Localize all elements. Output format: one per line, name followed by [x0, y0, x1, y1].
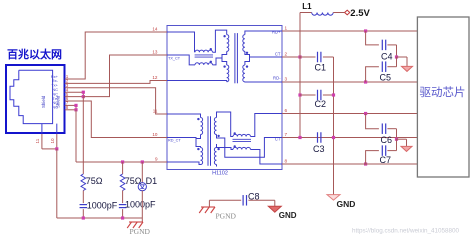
transformer T1 secondary winding (bottom cell) [214, 118, 219, 167]
svg-text:14: 14 [152, 27, 158, 32]
svg-text:https∶//blog.csdn.net/weixin_4: https∶//blog.csdn.net/weixin_41058800 [352, 228, 460, 235]
resistor R2 75ohm [120, 174, 125, 191]
wire T1 pin7 row to chip [282, 137, 417, 139]
svg-text:1: 1 [285, 26, 288, 31]
junction pins4-5 [82, 91, 85, 99]
label C8 [248, 192, 260, 202]
watermark [352, 228, 460, 235]
junction C6 tap [364, 112, 367, 115]
ground GND arrow right of C8 [268, 206, 281, 212]
ground arrow C6C7 [397, 139, 413, 151]
transformer T1 secondary winding (top cell) [243, 31, 282, 82]
transformer T1 left pin numbers [152, 27, 158, 162]
wire D1 to PGND rail [141, 191, 143, 218]
wire C9 to PGND rail [82, 209, 84, 218]
inductor L1 [312, 13, 334, 16]
label R1 75 [86, 176, 103, 186]
choke core (bottom cell) [233, 139, 252, 141]
capacitor C7 [366, 139, 397, 164]
wire RJ45 pin7 stub [65, 104, 76, 106]
label C10 1000pF [125, 200, 156, 210]
svg-text:RD+: RD+ [272, 30, 281, 35]
svg-text:L1: L1 [302, 2, 312, 11]
junction resistor R2 tap [121, 160, 124, 163]
transformer T1 left pin name labels [168, 56, 181, 142]
transformer T1 centre-tap path (bottom cell) [217, 135, 283, 158]
svg-text:9: 9 [155, 157, 158, 162]
label PGND1 [216, 212, 237, 221]
wire RJ45 pin4 stub [65, 91, 84, 93]
wire RJ45 pin8 stub [65, 109, 76, 111]
svg-text:12: 12 [152, 75, 158, 80]
resistor R1 75ohm [81, 174, 86, 191]
wire RJ45 pin6 to T1 pin10 [65, 101, 167, 138]
wire C8 to GND [248, 200, 274, 206]
svg-text:D1: D1 [146, 176, 158, 186]
transformer T1 right pin numbers [285, 26, 288, 164]
svg-text:75Ω: 75Ω [86, 176, 103, 186]
svg-text:CT: CT [275, 52, 281, 57]
wire pins7-8 down to node [75, 110, 77, 162]
wire C10 to PGND rail [122, 209, 124, 218]
junction C5 tap [364, 80, 367, 83]
ground arrow C4C5 [397, 57, 413, 71]
capacitor C9 1000pF [80, 205, 88, 208]
wire T1 pin2 row [282, 56, 300, 58]
wire L1 riser [300, 13, 312, 58]
connector J1 pin numbers 1-8 [66, 74, 69, 110]
connector J1 shield labels [41, 95, 61, 108]
label driver chip [420, 85, 466, 99]
svg-text:11: 11 [35, 138, 40, 143]
svg-text:百兆以太网: 百兆以太网 [7, 47, 62, 61]
svg-text:GND: GND [337, 199, 356, 209]
wire pins4-5 to T1 pin13 [83, 55, 167, 97]
wire R1 to C9 [82, 191, 84, 204]
svg-text:H1102: H1102 [212, 171, 228, 177]
wire pins4-5 down to R1 [82, 97, 84, 174]
label C4 [381, 51, 393, 61]
junction pins7-8 [74, 104, 77, 112]
label L1 [302, 2, 312, 11]
PGND rail wire [57, 217, 143, 219]
wire T1 pin6 to chip [282, 113, 417, 115]
svg-text:RD_CT: RD_CT [168, 138, 181, 142]
label GND mid [337, 199, 356, 209]
svg-text:10: 10 [50, 138, 55, 144]
wire pin6 to C6 [366, 114, 379, 129]
connector J1 jack outline [10, 70, 53, 123]
label 2.5V [350, 8, 370, 19]
junction C2 right [332, 93, 335, 96]
wire pin1 to C4 [366, 31, 379, 45]
connector J1 shield pin numbers 11 and 10 [35, 138, 55, 144]
label C1 [315, 63, 327, 73]
driver chip U1 box [417, 17, 469, 177]
svg-text:PGND: PGND [216, 212, 237, 221]
svg-text:1000pF: 1000pF [87, 201, 118, 211]
ground PGND2 symbol [127, 222, 143, 228]
choke winding lower (bottom cell) [217, 145, 283, 164]
wire joining pins 7 and 8 [75, 105, 77, 109]
wire joining pins 4 and 5 [82, 92, 84, 96]
wire RJ45 pin1 to T1 pin14 [65, 32, 167, 79]
transformer T1 primary winding (bottom cell) [167, 114, 203, 165]
svg-text:C2: C2 [315, 99, 327, 109]
junction rail-C10 [121, 216, 124, 219]
label D1 [146, 176, 158, 186]
svg-text:8: 8 [285, 159, 288, 164]
svg-text:C7: C7 [380, 155, 392, 165]
capacitor C6 [382, 123, 396, 139]
label PGND2 [130, 227, 151, 236]
choke winding upper (top cell) [167, 30, 227, 52]
svg-text:Shield: Shield [41, 95, 46, 108]
wire shield to PGND rail [56, 149, 58, 218]
svg-text:RD-: RD- [273, 76, 281, 81]
svg-text:C6: C6 [381, 135, 393, 145]
transformer T1 core (top cell) [235, 33, 238, 83]
svg-text:TX_CT: TX_CT [168, 56, 181, 60]
wire node to R2 [122, 162, 124, 174]
wire RJ45 pin2 to T1 pin12 [65, 81, 167, 84]
svg-text:C4: C4 [381, 51, 393, 61]
power port 2.5V diamond [345, 10, 350, 15]
transformer T1 primary winding (top cell) [167, 35, 229, 82]
label R2 75 [125, 176, 142, 186]
junction C6-C7-gnd [395, 138, 398, 141]
label C2 [315, 99, 327, 109]
label GND right of C8 [279, 211, 297, 220]
svg-text:7: 7 [285, 132, 288, 137]
label C6 [381, 135, 393, 145]
junction rail-C9 [82, 216, 85, 219]
svg-text:C1: C1 [315, 63, 327, 73]
wire shield pins down [42, 134, 57, 149]
transformer T1 core (bottom cell) [208, 116, 211, 166]
svg-text:C3: C3 [313, 144, 325, 154]
capacitor C4 [382, 40, 396, 57]
junction C3 right [332, 136, 335, 139]
svg-text:1000pF: 1000pF [125, 200, 156, 210]
wire rail to PGND2 [141, 218, 143, 222]
svg-text:3: 3 [285, 77, 288, 82]
junction C4 tap [364, 29, 367, 32]
wire R2 to C10 [122, 191, 124, 204]
choke winding lower (top cell) [167, 55, 222, 65]
capacitor C3 [318, 132, 321, 143]
transformer T1 box [167, 26, 282, 170]
choke core (top cell) [195, 55, 213, 57]
label C5 [380, 73, 392, 83]
label C9 1000pF [87, 201, 118, 211]
junction L1 net at pin7 [298, 136, 301, 139]
wire L1 net down to pin7 row [299, 57, 301, 138]
label C3 [313, 144, 325, 154]
connector J1 pin name labels [51, 74, 59, 110]
transformer T1 label H1102 [212, 171, 228, 177]
ground PGND1 symbol [199, 207, 215, 213]
junction C7 tap on pin8 row [364, 162, 367, 165]
svg-text:13: 13 [152, 50, 158, 55]
wire RJ45 pin3 to T1 pin11 [65, 88, 167, 114]
label C7 [380, 155, 392, 165]
wire GND net vertical [333, 57, 335, 195]
wire T1 pin8 to chip [282, 163, 417, 165]
capacitor C2 [300, 90, 334, 101]
wire L1 to power port [333, 12, 344, 14]
choke winding upper (bottom cell) [217, 112, 283, 137]
junction C4-C5-gnd [395, 55, 398, 58]
svg-text:GND: GND [279, 211, 297, 220]
wire node row to T1 pin9 [76, 161, 167, 163]
connector J1 RJ45 box [6, 65, 65, 133]
svg-text:2.5V: 2.5V [350, 8, 370, 19]
diode D1 [138, 183, 146, 191]
junction L1 net at pin2 [298, 55, 301, 58]
title label 100M Ethernet [7, 47, 62, 61]
capacitor C5 [366, 57, 397, 82]
connector J1 shield inner stubs [42, 124, 57, 134]
wire T1 pin1 to chip [282, 30, 417, 32]
junction shield [55, 147, 58, 150]
ground GND arrow mid [327, 195, 340, 201]
svg-text:驱动芯片: 驱动芯片 [420, 85, 466, 99]
wire node to D1 [141, 162, 143, 183]
capacitor C10 1000pF [119, 205, 127, 208]
capacitor C8 [243, 195, 246, 206]
transformer T1 right pin name labels [272, 30, 281, 142]
junction diode D1 tap [141, 160, 144, 163]
wire PGND1 to C8 [209, 200, 241, 207]
capacitor C1 [300, 52, 334, 63]
svg-text:C5: C5 [380, 73, 392, 83]
wire T1 pin3 to chip [282, 81, 417, 83]
svg-text:PGND: PGND [130, 227, 151, 236]
svg-text:Shield: Shield [56, 95, 61, 108]
wire RJ45 pin5 stub [65, 96, 84, 98]
junction C2 left [298, 93, 301, 96]
svg-text:2: 2 [285, 52, 288, 57]
svg-text:10: 10 [152, 132, 158, 137]
svg-text:6: 6 [285, 108, 288, 113]
